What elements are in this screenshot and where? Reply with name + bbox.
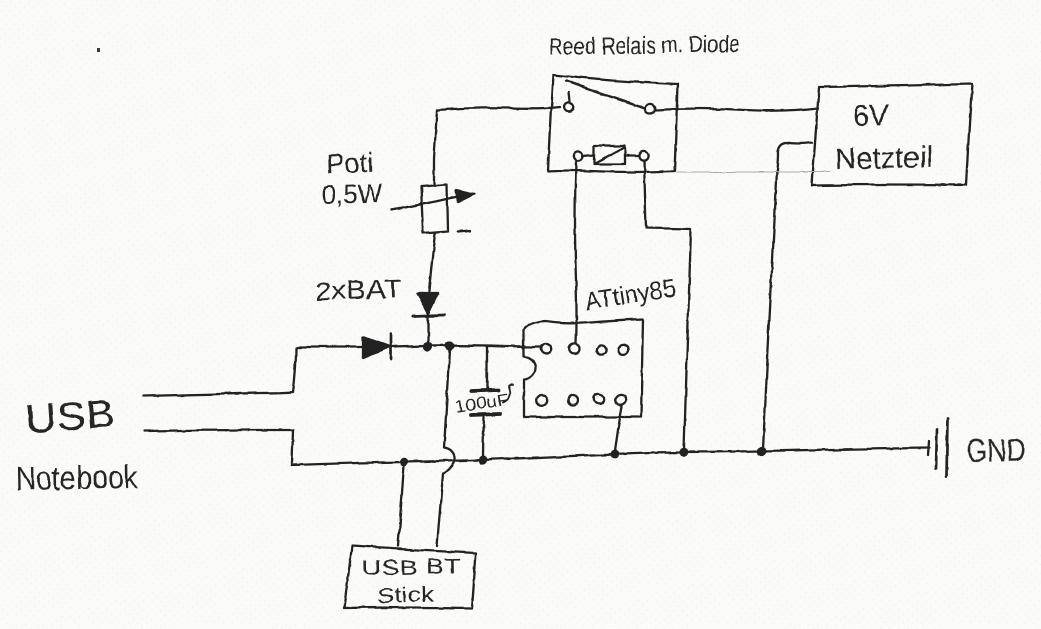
wire 6V box to GND rail (763, 143, 812, 449)
svg-text:USB: USB (24, 392, 117, 442)
svg-text:Reed Relais m. Diode: Reed Relais m. Diode (549, 31, 740, 61)
6V Netzteil box (812, 84, 972, 185)
ground terminal tick (928, 441, 929, 456)
ATtiny pin bottom 4 (615, 394, 626, 404)
svg-text:0,5W: 0,5W (321, 178, 382, 210)
diode D1 triangle (363, 337, 390, 358)
ATtiny pin bottom 3 (594, 394, 604, 404)
relay coil left pin (573, 151, 582, 160)
capacitor C1 top wire (486, 347, 488, 389)
ATtiny pin bottom 2 (568, 395, 578, 405)
junction node B (445, 341, 454, 350)
relay box (Reed Relais) (548, 75, 678, 172)
wire USB upper (143, 347, 300, 396)
junction node A (423, 342, 432, 351)
capacitor C1 top plate (471, 390, 498, 391)
wire coil left pin down to ATtiny pin (575, 161, 577, 344)
switch contact tick (569, 92, 570, 101)
wire relay right contact to 6V Netzteil box (656, 108, 818, 111)
wire left to diode D1 anode (300, 346, 362, 348)
potentiometer arrow shaft (392, 196, 460, 210)
junction relay gnd (680, 448, 689, 457)
svg-text:GND: GND (966, 432, 1027, 469)
svg-text:Poti: Poti (326, 148, 374, 179)
ground bar 2 (947, 418, 948, 476)
ATtiny pin top 1 (541, 344, 551, 354)
svg-text:2xBAT: 2xBAT (314, 273, 402, 306)
wire coil right pin down with jog to GND rail (644, 161, 691, 449)
wire D2 to node (427, 317, 429, 344)
junction ATtiny gnd (611, 450, 620, 459)
wire D1 to ATtiny pin1 (392, 346, 541, 347)
relay coil rectangle (594, 146, 625, 164)
switch left contact pin (565, 102, 574, 111)
junction netzteil gnd (757, 446, 766, 455)
junction slide left (400, 458, 409, 467)
faint overshoot line (677, 171, 830, 173)
switch right contact pin (645, 104, 655, 114)
capacitor C1 bottom wire (483, 417, 484, 457)
junction capacitor (478, 455, 487, 464)
USB BT stick box (344, 546, 476, 608)
svg-text:Notebook: Notebook (16, 458, 139, 497)
switch lever (566, 81, 643, 108)
wire coil right pin to rect (625, 155, 639, 157)
ATtiny pin top 4 (618, 345, 628, 355)
wire coil left pin to rect (582, 155, 594, 156)
diode D2 vertical triangle (417, 293, 438, 314)
ATtiny pin top 3 (596, 345, 605, 354)
wire ground rail (292, 448, 929, 465)
capacitor C1 bottom plate (471, 414, 500, 415)
svg-text:6V: 6V (852, 99, 889, 133)
ATtiny85 box (524, 319, 643, 417)
ATtiny pin top 2 (570, 344, 580, 354)
wire poti to diode (429, 233, 435, 291)
relay coil diagonal (595, 147, 625, 163)
svg-text:USB BT: USB BT (362, 555, 462, 580)
wire poti top vertical (434, 110, 437, 185)
wire node B down with hop to slide switch (437, 350, 455, 546)
capacitor plus squiggle mark (503, 385, 512, 402)
diode D2 cathode bar (413, 315, 444, 316)
wire top horizontal from poti top to relay left contact (437, 107, 560, 110)
svg-text:Stick: Stick (376, 583, 434, 608)
potentiometer tick (458, 231, 471, 232)
potentiometer arrow head (456, 190, 474, 202)
speck (97, 48, 100, 52)
wire ATtiny pin to GND rail (615, 406, 622, 451)
relay coil right pin (639, 151, 648, 160)
ground bar 1 (936, 429, 937, 468)
ATtiny pin bottom 1 (536, 395, 547, 405)
potentiometer body (421, 184, 448, 233)
wire slide switch left leg (398, 466, 404, 546)
diode D1 cathode bar (390, 334, 393, 359)
wire USB lower (144, 430, 293, 464)
svg-text:Netzteil: Netzteil (835, 141, 934, 176)
